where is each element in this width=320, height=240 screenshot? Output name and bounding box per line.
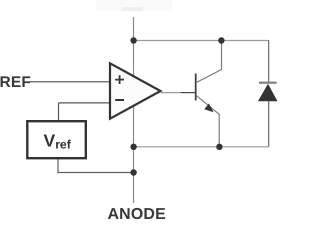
svg-text:REF: REF xyxy=(0,74,31,91)
svg-text:ANODE: ANODE xyxy=(108,206,166,220)
